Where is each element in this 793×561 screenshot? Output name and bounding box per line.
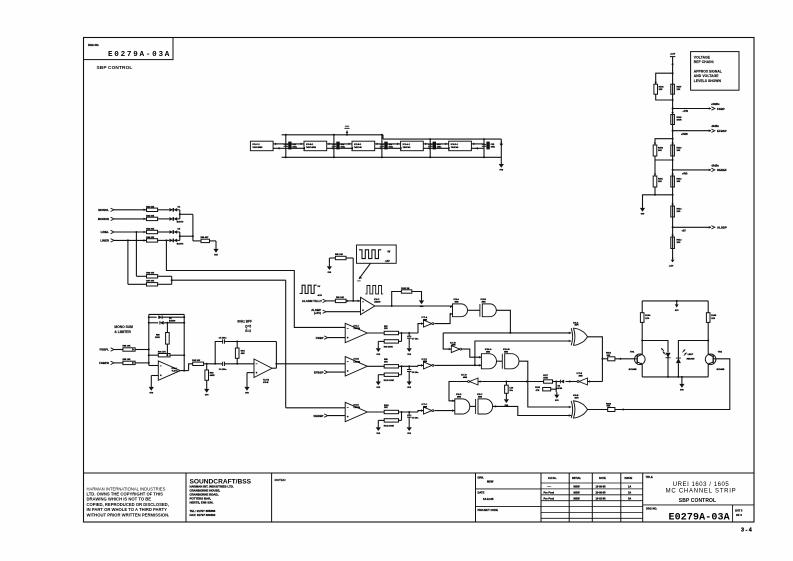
svg-text:MC CHANNEL STRIP: MC CHANNEL STRIP <box>666 489 737 495</box>
supply 0V0 mid <box>675 300 680 312</box>
svg-text:R88 10K: R88 10K <box>123 346 131 348</box>
svg-text:4093: 4093 <box>482 301 486 304</box>
svg-text:DESBP: DESBP <box>314 414 324 418</box>
svg-text:IC2-B-1: IC2-B-1 <box>354 144 362 146</box>
ground <box>407 379 412 389</box>
svg-text:FSBP: FSBP <box>316 336 324 340</box>
title block grid <box>84 473 755 522</box>
svg-text:R87 10K: R87 10K <box>146 280 154 282</box>
svg-text:0V0: 0V0 <box>245 393 249 395</box>
svg-text:80Hz BPF: 80Hz BPF <box>237 319 252 323</box>
filter stage block IC3-D <box>449 141 472 151</box>
diode pair MONOR <box>169 217 179 221</box>
svg-text:0V0: 0V0 <box>377 433 381 435</box>
svg-text:R105: R105 <box>711 315 717 317</box>
wire <box>158 231 170 233</box>
svg-text:4070: 4070 <box>575 396 579 399</box>
resistor R85 4K7 <box>201 236 210 242</box>
wire <box>566 380 578 383</box>
svg-text:R85 4K7: R85 4K7 <box>201 236 210 239</box>
svg-text:HERTS, EN6 3JN.: HERTS, EN6 3JN. <box>190 500 214 504</box>
svg-text:MONOR: MONOR <box>98 217 110 221</box>
svg-text:0V0: 0V0 <box>641 214 645 216</box>
svg-text:R89 10K: R89 10K <box>123 359 131 361</box>
svg-text:0V0: 0V0 <box>555 400 559 402</box>
wire feedback to IC7-D <box>478 380 544 383</box>
resistor R105 1K0 <box>706 313 717 323</box>
svg-text:ALARM TALLY: ALARM TALLY <box>302 299 322 303</box>
resistor R93 430R <box>205 364 215 387</box>
svg-text:100K: 100K <box>543 378 548 380</box>
svg-text:FSBPR: FSBPR <box>99 361 110 365</box>
svg-text:FSBP: FSBP <box>717 107 725 111</box>
svg-text:PROJECT CODE: PROJECT CODE <box>478 508 499 512</box>
nand gate IC8-A <box>450 298 468 317</box>
resistor R97 10K <box>384 326 399 335</box>
svg-text:0V0: 0V0 <box>328 272 332 274</box>
svg-text:NOTES:: NOTES: <box>275 478 286 482</box>
svg-text:ISSUE: ISSUE <box>625 476 633 480</box>
coupling network C11 <box>284 134 298 159</box>
svg-text:0V0: 0V0 <box>407 433 411 435</box>
resistor R103 100K <box>378 411 402 428</box>
waveform 0V/-6V <box>300 285 323 297</box>
supply -14V <box>669 257 675 267</box>
connector MONOR <box>98 217 147 221</box>
resistor R94 43K <box>235 341 245 365</box>
svg-text:29-09-85: 29-09-85 <box>596 492 607 495</box>
svg-text:100R: 100R <box>677 120 682 122</box>
voltage ref chain note box <box>691 52 739 91</box>
svg-text:10K: 10K <box>607 355 611 357</box>
border frame <box>84 38 755 523</box>
svg-text:0V0: 0V0 <box>214 255 218 257</box>
wire stage output pins <box>375 143 382 150</box>
svg-text:10K: 10K <box>677 181 681 183</box>
svg-text:10K: 10K <box>658 150 662 152</box>
svg-text:FSBPL: FSBPL <box>100 348 110 352</box>
svg-text:Q=5: Q=5 <box>245 324 251 328</box>
svg-text:LM339: LM339 <box>354 407 361 409</box>
svg-text:LINEL: LINEL <box>101 230 110 234</box>
wire comparator output <box>367 411 384 413</box>
svg-text:1K0: 1K0 <box>645 318 650 320</box>
wire jog to inverter <box>418 411 424 412</box>
svg-text:-6V0: -6V0 <box>317 295 322 297</box>
svg-text:BC548B: BC548B <box>717 368 725 371</box>
svg-text:-10dBu: -10dBu <box>711 126 719 128</box>
connector DEREF <box>682 165 727 175</box>
svg-text:R104: R104 <box>645 314 651 317</box>
top bus right <box>383 135 501 139</box>
svg-text:SHT 3: SHT 3 <box>735 509 743 513</box>
wire pair2 join <box>655 156 674 161</box>
led LED7 red <box>661 348 670 377</box>
svg-text:0V: 0V <box>388 251 391 253</box>
ground <box>419 298 424 308</box>
svg-text:0V0: 0V0 <box>407 354 411 356</box>
diode pair LINER <box>169 239 179 243</box>
label D5 BAV70 <box>177 229 184 246</box>
label 80Hz BPF <box>237 319 252 333</box>
wire noninverting input <box>247 373 254 385</box>
wire comparator output <box>375 305 453 307</box>
svg-text:MSW: MSW <box>574 497 581 500</box>
svg-text:UREI 1603 / 1605: UREI 1603 / 1605 <box>673 482 730 488</box>
wire stage input pins <box>286 143 305 150</box>
svg-text:R82 10K: R82 10K <box>146 216 154 218</box>
svg-text:+10dBu: +10dBu <box>711 104 720 106</box>
wire stage input pins <box>430 143 450 150</box>
svg-text:16-02-86: 16-02-86 <box>596 497 607 500</box>
wire pair3 join <box>654 187 674 196</box>
comparator IC6-D <box>345 402 367 421</box>
wire left leg <box>641 322 643 354</box>
svg-text:R92 10K: R92 10K <box>192 360 200 362</box>
resistor R110 10K <box>671 143 682 156</box>
connector FSBPL <box>100 348 123 352</box>
wire <box>158 209 170 211</box>
wire stage output pins <box>327 143 334 150</box>
svg-text:IC2-A-1: IC2-A-1 <box>403 143 411 146</box>
diode pair LINEL <box>169 230 179 234</box>
resistor R111 10K <box>653 176 663 187</box>
svg-text:430R: 430R <box>210 374 215 377</box>
svg-text:WITHOUT PRIOR WRITTEN PERMISSI: WITHOUT PRIOR WRITTEN PERMISSION. <box>87 512 170 517</box>
svg-text:0V0: 0V0 <box>377 354 381 356</box>
hysteresis resistor R102 1M <box>392 288 422 306</box>
svg-text:2A: 2A <box>628 492 631 495</box>
wire <box>553 381 561 383</box>
nand gate IC8-D <box>452 394 470 414</box>
ground <box>554 392 559 402</box>
wire top rail <box>642 301 708 313</box>
wire inverting input <box>149 314 159 365</box>
wire IC7-D out <box>449 382 468 401</box>
svg-text:SBP CONTROL: SBP CONTROL <box>679 498 716 504</box>
supply +12V <box>670 54 676 65</box>
comparator IC6-B <box>345 357 367 376</box>
svg-text:22K: 22K <box>659 89 663 91</box>
wire jog to inverter <box>418 324 424 333</box>
ground <box>376 346 381 356</box>
resistor R109 10K <box>653 145 664 156</box>
wire right leg <box>707 322 709 354</box>
svg-text:0V0: 0V0 <box>675 310 679 312</box>
svg-text:R96 10K: R96 10K <box>336 297 344 299</box>
wire stage input pins <box>382 143 402 150</box>
svg-text:MONO SUM: MONO SUM <box>114 325 133 329</box>
resistor R98 100K <box>378 332 402 349</box>
revision table <box>544 476 633 501</box>
wire bpf output <box>272 342 277 369</box>
resistor R108 100R <box>671 112 683 124</box>
svg-text:LM339: LM339 <box>354 328 361 330</box>
svg-text:TR4: TR4 <box>630 351 635 354</box>
pulse note box <box>357 245 397 263</box>
svg-text:D4: D4 <box>178 205 182 208</box>
resistor R100 100K <box>378 365 402 382</box>
ground <box>640 206 645 216</box>
svg-text:C6 100n: C6 100n <box>219 369 227 371</box>
resistor R101 10K <box>384 405 399 414</box>
svg-text:FAX: 01707 660482: FAX: 01707 660482 <box>190 513 216 517</box>
svg-text:10K: 10K <box>607 406 611 408</box>
wire stage output pins <box>471 143 484 150</box>
svg-text:10K: 10K <box>677 150 681 152</box>
wire comparator output <box>367 332 384 334</box>
svg-text:EFBSP: EFBSP <box>717 129 727 133</box>
wire emitters <box>642 364 708 377</box>
svg-text:3 - 4: 3 - 4 <box>741 528 752 534</box>
wire <box>158 218 170 220</box>
transistor TR4 <box>629 351 645 371</box>
capacitor C7 10n <box>407 333 419 346</box>
svg-text:4069: 4069 <box>423 318 427 321</box>
resistor R89 10K <box>123 359 136 365</box>
label D4 BAV70 <box>177 205 184 223</box>
wire <box>468 309 480 311</box>
coupling network C14 <box>428 138 442 158</box>
comparator IC6-A <box>345 323 367 342</box>
svg-text:IC6-A: IC6-A <box>354 324 360 327</box>
svg-text:SBP CONTROL: SBP CONTROL <box>97 65 133 71</box>
connector LINEL <box>101 230 147 234</box>
svg-text:C9 10n: C9 10n <box>412 418 419 420</box>
resistor R88 10K <box>123 346 136 351</box>
svg-text:43K: 43K <box>241 352 245 355</box>
wire to R110 <box>602 358 607 360</box>
resistor R86 10K <box>146 272 157 278</box>
wire <box>132 362 150 365</box>
soundcraft address <box>190 478 252 516</box>
resistor R91 47K <box>148 350 185 357</box>
wire sum node <box>158 276 173 284</box>
wire <box>399 411 419 413</box>
ground <box>213 247 218 257</box>
resistor R82 10K <box>146 216 157 221</box>
svg-text:E0279A-03A: E0279A-03A <box>669 512 730 523</box>
wire tap row3 down <box>135 231 146 276</box>
svg-text:TITLE: TITLE <box>646 475 653 479</box>
resistor R99 10K <box>384 359 399 368</box>
waveform at comparator output <box>365 286 383 294</box>
svg-text:1A: 1A <box>628 486 631 489</box>
wire <box>132 348 150 351</box>
wire <box>470 405 476 407</box>
wire bpf feedback <box>215 342 223 364</box>
svg-text:TL072: TL072 <box>172 371 179 373</box>
svg-text:4069: 4069 <box>579 374 583 377</box>
title text <box>646 475 737 504</box>
wire <box>346 300 361 303</box>
svg-text:+1V: +1V <box>682 230 687 232</box>
node EFBSP tap <box>672 129 711 132</box>
svg-text:4093: 4093 <box>478 395 482 398</box>
svg-text:C8 10n: C8 10n <box>412 372 419 374</box>
drg no box (top-left) <box>84 38 174 60</box>
svg-text:DEREF: DEREF <box>717 168 727 172</box>
svg-text:D2: D2 <box>169 318 172 320</box>
wire <box>497 360 503 362</box>
svg-text:0V0: 0V0 <box>377 387 381 389</box>
wire node to bias resistor <box>193 214 201 241</box>
svg-text:10K: 10K <box>384 362 388 364</box>
wire join rows 1-2 <box>179 210 193 219</box>
svg-text:LM339: LM339 <box>374 301 381 303</box>
svg-text:10K: 10K <box>658 181 662 183</box>
svg-text:+6V00: +6V00 <box>681 134 688 136</box>
svg-text:R83 10K: R83 10K <box>146 229 154 231</box>
svg-text:EFBSP: EFBSP <box>314 370 324 374</box>
connector FSBPR <box>99 361 123 365</box>
svg-text:IC5-B: IC5-B <box>263 382 269 384</box>
pulse note arrow <box>357 263 370 281</box>
svg-text:0V0: 0V0 <box>680 390 684 392</box>
wire jog to inverter <box>418 364 424 367</box>
ground <box>504 397 509 407</box>
ground <box>679 377 684 392</box>
coupling network C15 <box>482 138 496 158</box>
svg-text:VOLTAGE: VOLTAGE <box>694 55 711 59</box>
wire feedback top <box>149 314 184 370</box>
svg-text:R91 47K: R91 47K <box>158 350 166 353</box>
svg-text:LEVELS SHOWN: LEVELS SHOWN <box>694 79 722 83</box>
wire stage input pins <box>334 143 353 150</box>
nand gate IC8-C <box>476 394 493 414</box>
resistor R117 100K <box>543 375 552 383</box>
svg-text:R94: R94 <box>241 349 246 352</box>
limiter diode D3 <box>148 318 185 325</box>
svg-text:DRN.: DRN. <box>478 476 485 480</box>
nand gate IC10-B <box>502 349 519 369</box>
svg-text:AND VOLTAGE: AND VOLTAGE <box>694 74 720 78</box>
wire W1 latch top <box>443 332 571 349</box>
wire comparator output <box>367 365 384 367</box>
svg-text:(+5V): (+5V) <box>314 311 321 315</box>
svg-text:16-09-85: 16-09-85 <box>596 486 607 489</box>
diode pair MONOL <box>169 208 179 212</box>
svg-text:0V0: 0V0 <box>500 170 504 172</box>
svg-text:BAV99: BAV99 <box>556 387 563 390</box>
svg-text:4069: 4069 <box>452 343 456 346</box>
ground <box>204 387 209 397</box>
svg-text:74HC4053: 74HC4053 <box>306 146 317 149</box>
node DEREF tap <box>672 169 711 172</box>
svg-text:+12V: +12V <box>670 54 676 56</box>
wire pair2 branch <box>654 138 674 145</box>
svg-text:+7V0: +7V0 <box>683 111 689 113</box>
svg-text:RED/GN: RED/GN <box>687 359 695 361</box>
wire stage output pins <box>273 143 286 150</box>
wire gnd branch <box>643 195 656 206</box>
transistor TR5 <box>705 352 725 371</box>
svg-text:1K0: 1K0 <box>677 242 682 244</box>
resistor R90 220K <box>155 322 169 356</box>
connector ALSBP <box>682 226 727 233</box>
svg-text:G=2: G=2 <box>245 329 251 333</box>
supply +12V filter chain <box>344 126 349 136</box>
svg-text:APPROX SIGNAL: APPROX SIGNAL <box>694 70 722 74</box>
svg-text:4069: 4069 <box>423 360 427 363</box>
svg-text:10n: 10n <box>509 390 513 392</box>
wire noninverting input <box>151 376 158 385</box>
svg-text:OF 3: OF 3 <box>736 513 742 517</box>
filter stage block IC3-B <box>304 141 327 151</box>
svg-text:BAV99: BAV99 <box>169 320 176 323</box>
page number 3-4 <box>741 528 752 534</box>
copyright text <box>87 486 170 517</box>
resistor R92 10K <box>192 360 203 366</box>
svg-text:TR5: TR5 <box>718 352 723 354</box>
svg-text:74HC40: 74HC40 <box>403 146 411 149</box>
svg-text:C7 10n: C7 10n <box>412 339 419 341</box>
ground <box>244 385 249 395</box>
connector ALARM TALLY <box>302 299 335 303</box>
svg-text:C15: C15 <box>491 144 496 146</box>
wire W2 latch <box>474 341 571 366</box>
wire gate4 out <box>519 361 571 407</box>
svg-text:4069: 4069 <box>423 405 427 408</box>
node ALSBP tap <box>672 226 711 229</box>
svg-text:1K0: 1K0 <box>711 318 716 320</box>
capacitor C9 10n <box>407 412 419 425</box>
wire <box>399 332 419 334</box>
wire tap row4 down <box>127 239 147 284</box>
wire vref main vertical <box>672 63 674 259</box>
svg-text:-----: ----- <box>547 486 551 489</box>
connector FSBP <box>316 336 345 340</box>
svg-text:R98 100K: R98 100K <box>384 347 394 349</box>
led LED7 green <box>676 349 687 377</box>
resistor R84 10K <box>146 236 157 242</box>
svg-text:& LIMITER: & LIMITER <box>114 330 131 334</box>
svg-text:0V: 0V <box>318 286 321 288</box>
svg-text:0V0: 0V0 <box>205 395 209 397</box>
wire to TR4 base <box>615 358 634 361</box>
label LED7 <box>687 354 695 360</box>
svg-text:LED7: LED7 <box>688 354 694 356</box>
svg-text:1K0: 1K0 <box>677 211 682 213</box>
svg-text:INITIAL: INITIAL <box>572 476 581 480</box>
svg-text:74HC4053: 74HC4053 <box>252 146 263 149</box>
resistor R113 1K <box>671 204 682 217</box>
wire <box>399 365 419 367</box>
inverter IC7-F <box>421 359 434 369</box>
inverter IC7-D <box>461 375 481 385</box>
connector LINER <box>100 239 146 243</box>
svg-text:0V0: 0V0 <box>150 393 154 395</box>
svg-text:4093: 4093 <box>455 301 459 304</box>
svg-text:C5 100n: C5 100n <box>219 337 227 339</box>
coupling network C13 <box>380 134 394 159</box>
svg-text:47K: 47K <box>536 389 540 392</box>
resistor R114 1K <box>671 235 682 249</box>
filter stage block IC3-C <box>250 141 273 151</box>
svg-text:IC5-A: IC5-A <box>172 367 178 370</box>
resistor R81 10K <box>146 206 157 211</box>
filter stage block IC2-A <box>401 141 424 151</box>
xor gate IC9-A <box>569 321 588 345</box>
supply 0V chain right <box>499 141 503 146</box>
wire IC7-B out <box>462 349 482 357</box>
svg-text:D5: D5 <box>178 229 182 231</box>
resistor R87 10K <box>146 280 157 286</box>
wire <box>210 241 217 247</box>
ground <box>149 385 154 395</box>
connector FSBP <box>683 104 725 113</box>
inverter IC7-A <box>421 316 434 327</box>
